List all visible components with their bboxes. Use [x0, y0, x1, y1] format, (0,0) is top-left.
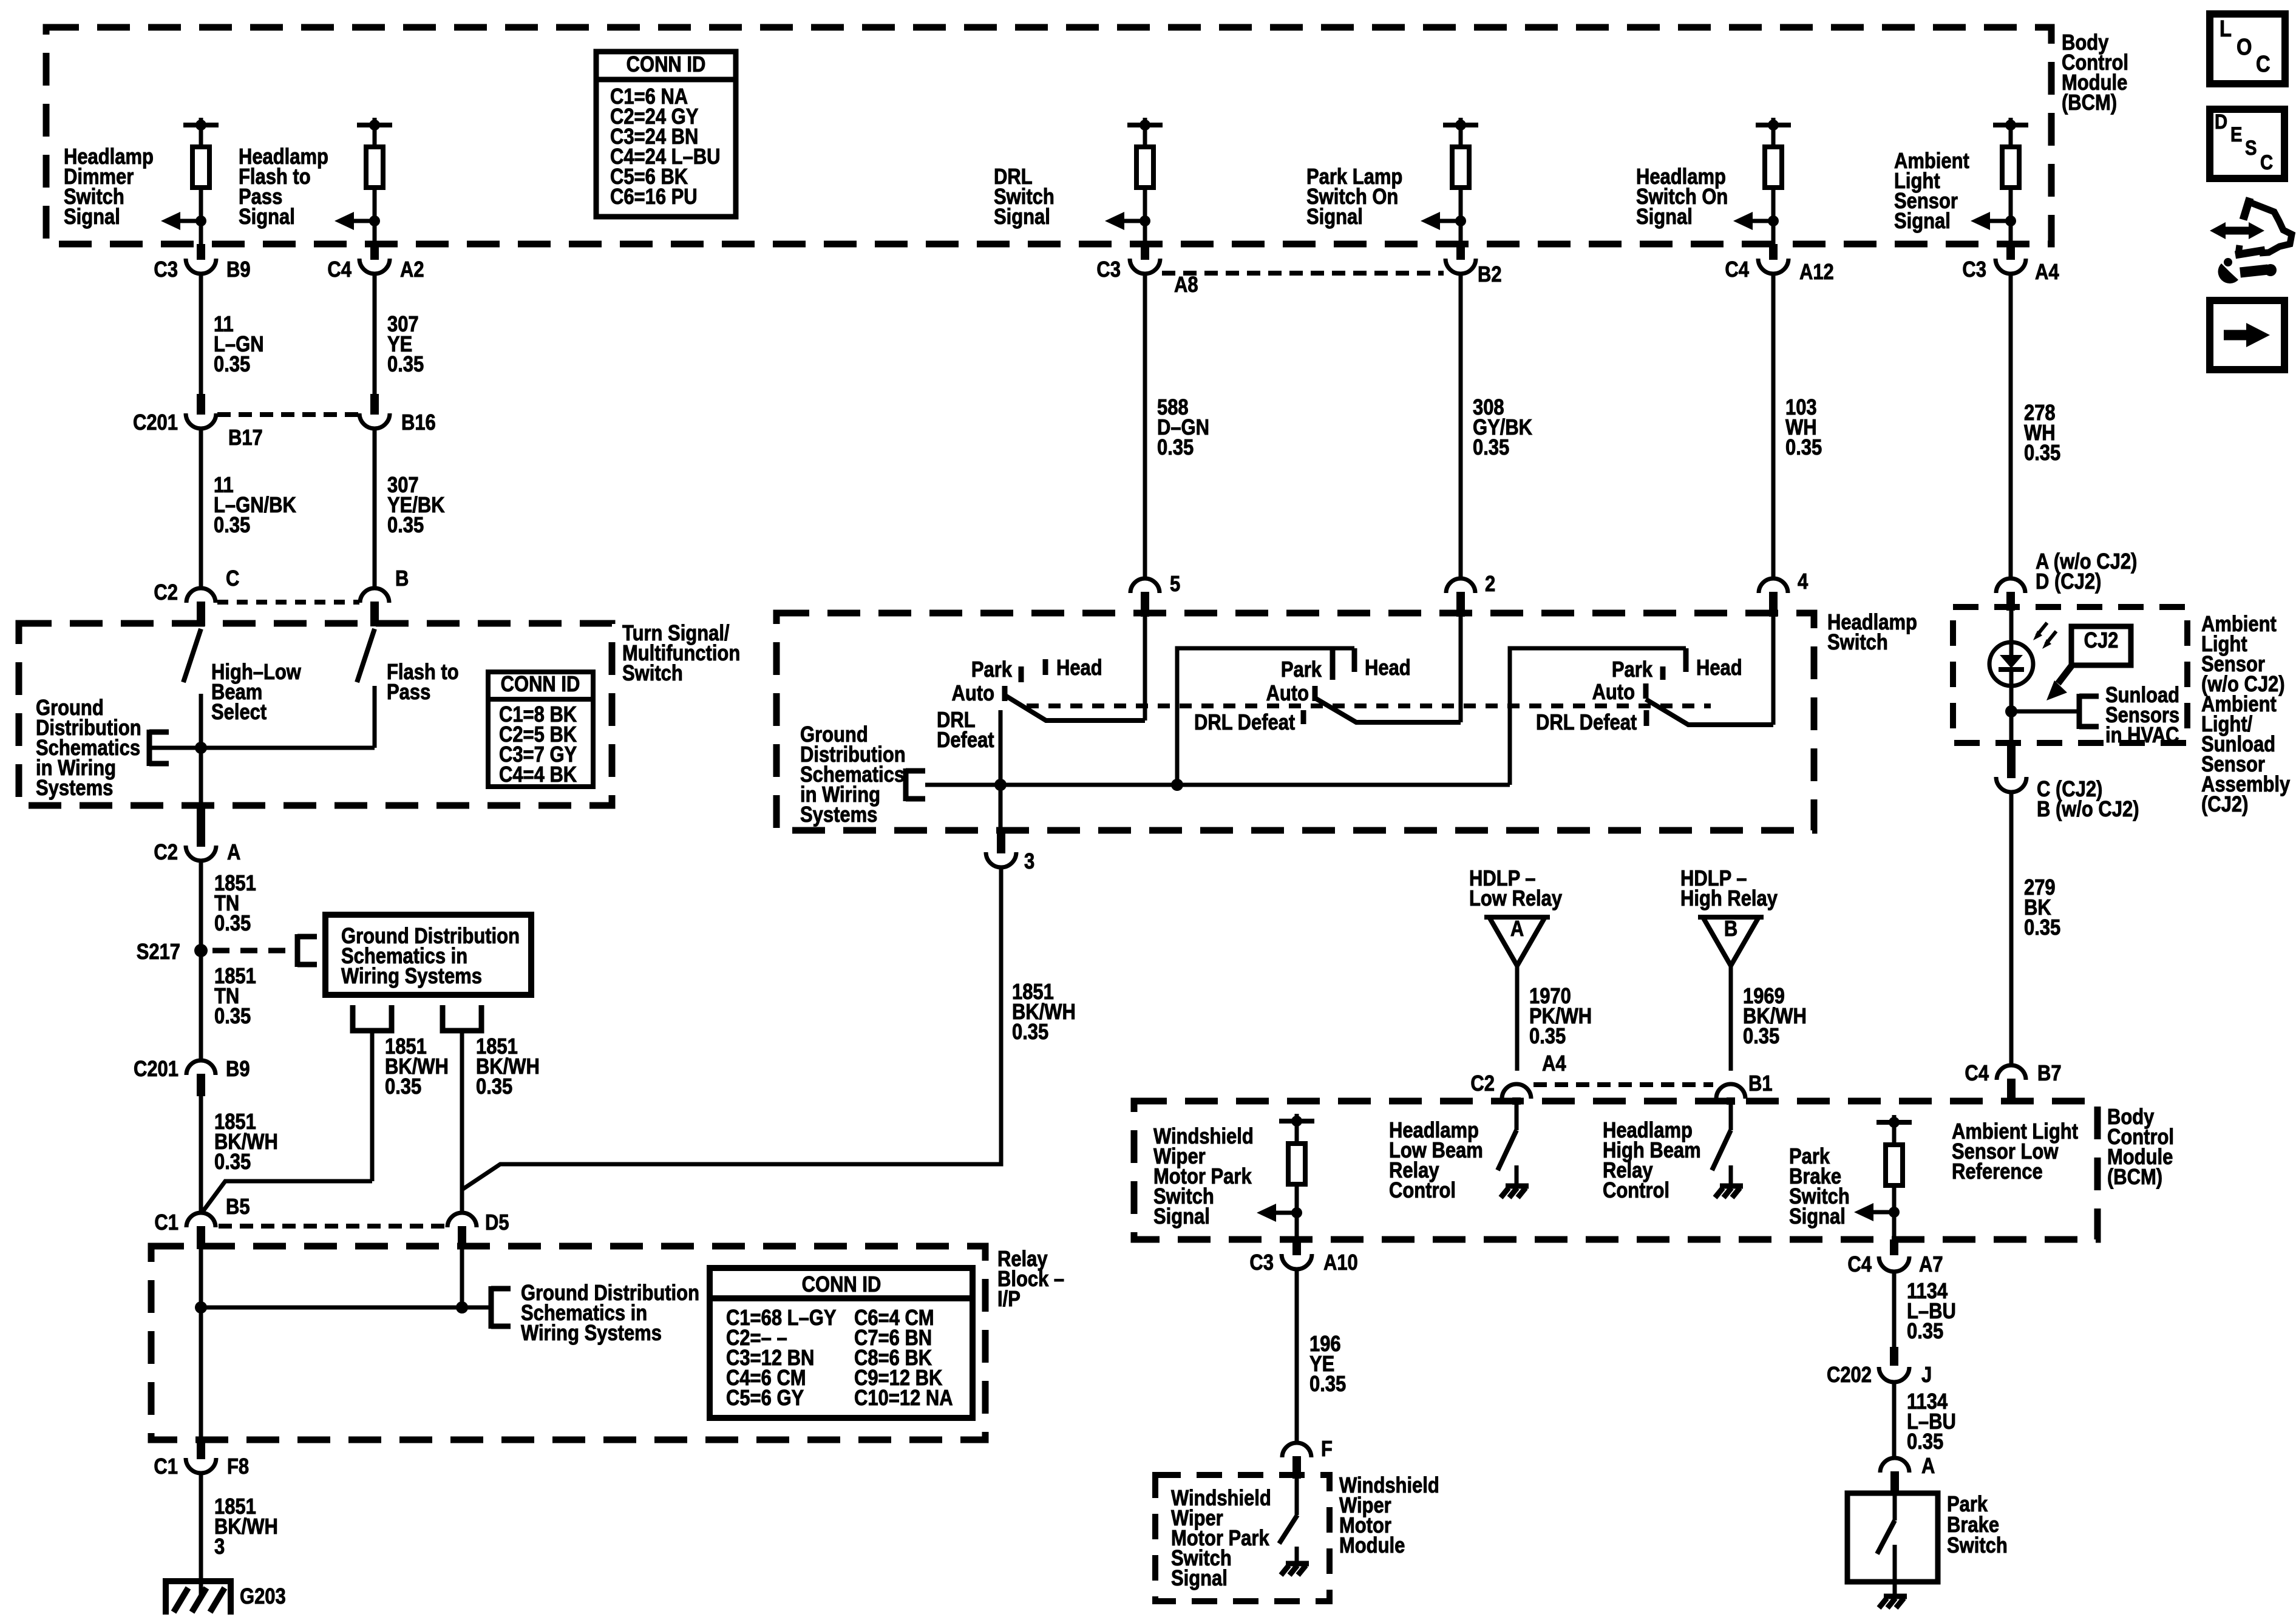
wire ambient light sensor signal B+ stub [2009, 118, 2013, 126]
svg-text:0.35: 0.35 [387, 353, 424, 377]
node headlamp flash to pass signal top bar [357, 123, 392, 127]
svg-text:Signal: Signal [1153, 1205, 1210, 1229]
wire headlamp flash to pass signal B+ stub [373, 118, 377, 126]
svg-text:L: L [2220, 16, 2232, 42]
signal arrow DRL switch signal [1113, 219, 1145, 223]
wire headlamp-on inside switch [1771, 617, 1776, 725]
svg-text:0.35: 0.35 [1907, 1430, 1943, 1454]
svg-text:Switch: Switch [1827, 631, 1888, 655]
svg-text:C: C [2256, 51, 2271, 77]
svg-text:C: C [226, 567, 239, 591]
node headlamp switch on signal top bar [1756, 123, 1791, 127]
svg-text:C4: C4 [1965, 1062, 1989, 1086]
signal arrow headlamp flash to pass signal [343, 219, 375, 223]
connector D5 [447, 1213, 477, 1227]
svg-text:B16: B16 [401, 411, 436, 435]
wire DRL defeat output [999, 710, 1003, 830]
switch C head contact [1683, 648, 1689, 672]
wire park lamp switch on signal [1459, 125, 1463, 149]
bracket sunload sensors [2077, 694, 2082, 729]
svg-text:D (CJ2): D (CJ2) [2036, 570, 2101, 594]
connector C1/F8 [197, 1438, 205, 1459]
svg-text:Signal: Signal [1789, 1205, 1846, 1229]
wire 588 D-GN [1143, 274, 1147, 579]
park brake switch box [1847, 1493, 1938, 1582]
switch B head contact [1352, 648, 1357, 672]
wire park lamp switch on signal B+ stub [1459, 118, 1463, 126]
svg-text:B (w/o CJ2): B (w/o CJ2) [2037, 798, 2139, 822]
wire 1851 BK/WH defeat [462, 867, 1001, 1190]
park brake switch blade [1893, 1493, 1897, 1520]
wire to G203 [199, 1473, 203, 1596]
svg-text:(CJ2): (CJ2) [2201, 793, 2248, 817]
switch C contact feed [1510, 648, 1686, 785]
svg-text:A10: A10 [1323, 1251, 1358, 1275]
connector A/D into sensor [1996, 578, 2025, 593]
CONN ID table (BCM) [596, 52, 736, 217]
svg-text:B9: B9 [226, 1057, 250, 1082]
svg-text:C201: C201 [133, 411, 178, 435]
svg-text:0.35: 0.35 [2024, 441, 2060, 466]
wire headlamp switch on signal [1771, 188, 1776, 244]
svg-text:0.35: 0.35 [214, 1005, 251, 1029]
svg-text:0.35: 0.35 [1012, 1020, 1048, 1045]
node headlamp switch on signal arrow junction [1768, 215, 1779, 226]
svg-text:Module: Module [1339, 1534, 1405, 1558]
switch C blade [1646, 699, 1773, 725]
svg-text:Signal: Signal [1894, 209, 1951, 234]
svg-text:B17: B17 [228, 426, 263, 450]
svg-text:Head: Head [1365, 656, 1411, 680]
switch C park contact [1660, 666, 1666, 680]
svg-text:Wiring Systems: Wiring Systems [341, 964, 482, 989]
ground (park brake) [1884, 1594, 1907, 1599]
svg-text:Signal: Signal [239, 205, 295, 229]
CJ2 arrow [2058, 663, 2074, 683]
node ambient light sensor signal top bar [1993, 123, 2028, 127]
svg-text:Defeat: Defeat [937, 728, 994, 753]
LOC icon box [2210, 14, 2285, 84]
connector C2/A [197, 807, 205, 847]
svg-text:Switch: Switch [622, 662, 683, 686]
connector C201 B16 [370, 394, 379, 415]
svg-text:C3: C3 [154, 258, 178, 282]
svg-text:0.35: 0.35 [1743, 1025, 1779, 1049]
svg-text:0.35: 0.35 [1309, 1372, 1346, 1397]
svg-text:C1: C1 [154, 1211, 178, 1235]
svg-text:Pass: Pass [387, 680, 430, 705]
wire 1969 BK/WH [1729, 966, 1733, 1071]
relay triangle B [1703, 917, 1759, 966]
switch A head contact [1043, 659, 1048, 675]
svg-text:Switch: Switch [1947, 1534, 2008, 1558]
ground G203 [163, 1578, 233, 1584]
ambient light sensor dashed box [1953, 607, 2187, 743]
switch A blade [1005, 696, 1145, 720]
goes-to cup left [353, 1005, 392, 1031]
signal arrow headlamp switch on signal [1742, 219, 1773, 223]
node defeat bus junction [994, 779, 1007, 791]
svg-text:C3: C3 [1096, 258, 1121, 282]
wire 279 BK [2009, 792, 2014, 1066]
svg-text:C2: C2 [154, 841, 178, 865]
connector C201 B17 [197, 394, 205, 415]
windshield wiper motor module dashed box [1155, 1475, 1330, 1601]
svg-text:F: F [1321, 1437, 1333, 1462]
wire DRL switch signal B+ stub [1143, 118, 1147, 126]
svg-text:A7: A7 [1919, 1253, 1943, 1277]
svg-text:B: B [395, 567, 409, 591]
svg-text:B7: B7 [2037, 1062, 2062, 1086]
svg-text:(BCM): (BCM) [2062, 91, 2117, 115]
svg-text:J: J [1921, 1363, 1932, 1388]
arrow icon box [2210, 300, 2284, 370]
node bus right [456, 1301, 468, 1314]
wire DRL switch signal [1143, 125, 1147, 149]
svg-text:B1: B1 [1748, 1072, 1773, 1096]
connector C3/A4 [2006, 244, 2015, 260]
svg-text:0.35: 0.35 [1785, 436, 1822, 460]
svg-text:C5=6 GY: C5=6 GY [726, 1386, 804, 1411]
wire headlamp flash to pass signal [373, 188, 377, 244]
wire photodiode low side [2009, 686, 2014, 743]
svg-text:Head: Head [1696, 656, 1742, 680]
connector C1/B5 [186, 1213, 216, 1227]
wire 103 WH [1771, 274, 1776, 579]
connector pin line C201 [217, 412, 359, 417]
wire 308 GY/BK [1459, 274, 1463, 579]
switch B blade [1315, 698, 1461, 722]
svg-text:Park: Park [1281, 658, 1322, 682]
wire ambient light sensor signal [2009, 125, 2013, 149]
svg-text:CONN ID: CONN ID [802, 1273, 881, 1297]
svg-text:S: S [2245, 136, 2257, 160]
switch B contact feed [1177, 648, 1354, 783]
svg-text:A8: A8 [1174, 273, 1198, 297]
connector C4/B7 [1997, 1065, 2026, 1080]
signal arrow ambient light sensor signal [1979, 219, 2011, 223]
svg-text:DRL Defeat: DRL Defeat [1536, 711, 1637, 735]
wire 1851 BK/WH left [370, 1031, 375, 1181]
svg-text:0.35: 0.35 [1529, 1025, 1566, 1049]
node ambient light sensor signal arrow junction [2005, 215, 2016, 226]
resistor DRL switch signal [1136, 147, 1153, 188]
svg-text:C4=4 BK: C4=4 BK [499, 763, 577, 787]
svg-text:C4: C4 [1847, 1253, 1872, 1277]
light arrows [2037, 623, 2047, 636]
svg-text:Auto: Auto [1266, 682, 1309, 706]
node headlamp dimmer switch signal arrow junction [195, 215, 206, 226]
connector C2/C [186, 588, 216, 603]
ground (wiper module) [1286, 1561, 1309, 1567]
wire flash-pass lower [373, 686, 377, 748]
svg-text:Signal: Signal [1636, 205, 1693, 229]
connector C4/A7 [1890, 1239, 1898, 1255]
switch high-low beam select [183, 629, 201, 682]
connector pin line C2 [217, 600, 359, 605]
svg-text:Systems: Systems [36, 776, 113, 801]
ground (high beam relay) [1720, 1184, 1743, 1189]
svg-text:Control: Control [1389, 1179, 1456, 1203]
svg-text:CJ2: CJ2 [2084, 629, 2119, 653]
svg-text:Control: Control [1603, 1179, 1669, 1203]
wire park lamp switch on signal [1459, 188, 1463, 244]
switch B auto contact [1313, 686, 1318, 701]
svg-text:C4: C4 [1725, 258, 1749, 282]
wire high-low lower [199, 694, 203, 808]
wire 1851 BK/WH main [199, 1096, 203, 1213]
wire headlamp switch on signal [1771, 125, 1776, 149]
CONN ID table (relay block) [710, 1268, 973, 1418]
connector B2 [1456, 244, 1465, 260]
wrench icon [2240, 269, 2268, 273]
wire headlamp dimmer switch signal B+ stub [199, 118, 203, 126]
svg-text:0.35: 0.35 [214, 514, 250, 538]
svg-text:B: B [1724, 917, 1737, 941]
wire 1851 TN [199, 861, 203, 1061]
svg-text:B9: B9 [226, 258, 251, 282]
svg-text:E: E [2230, 123, 2242, 146]
connector 3 [997, 830, 1005, 853]
bracket ground distribution (relay block) [489, 1286, 494, 1329]
svg-text:3: 3 [214, 1535, 225, 1559]
wiper park switch [1295, 1479, 1299, 1515]
signal arrow park brake [1863, 1210, 1894, 1215]
svg-text:0.35: 0.35 [1157, 436, 1194, 460]
svg-text:D: D [2215, 110, 2227, 134]
resistor headlamp flash to pass signal [366, 147, 383, 188]
wire 278 WH [2009, 274, 2013, 579]
connector pin line C1 [219, 1224, 446, 1229]
svg-text:High Relay: High Relay [1680, 887, 1778, 911]
svg-text:S217: S217 [137, 940, 180, 964]
svg-text:A4: A4 [2035, 260, 2059, 285]
svg-text:Signal: Signal [1171, 1567, 1228, 1591]
connector B [360, 588, 389, 603]
svg-text:Systems: Systems [800, 803, 877, 827]
goes-to cup right [443, 1005, 481, 1031]
svg-text:0.35: 0.35 [214, 912, 251, 936]
wiper park switch signal resistor wire [1295, 1114, 1299, 1122]
DRL defeat contact (C) [1644, 710, 1649, 726]
connector 2 [1446, 578, 1475, 593]
DRL defeat contact (B) [1301, 710, 1306, 724]
wire into relay block right [460, 1248, 464, 1307]
Turn Signal/Multifunction Switch dashed box [19, 623, 612, 805]
svg-text:DRL Defeat: DRL Defeat [1194, 711, 1295, 735]
svg-text:Park: Park [971, 658, 1012, 682]
Headlamp Switch dashed box [776, 613, 1814, 830]
svg-text:D5: D5 [485, 1211, 509, 1235]
switch A park contact [1019, 666, 1024, 682]
node sunload junction [2005, 705, 2017, 717]
connector C2/A4 [1502, 1084, 1531, 1099]
node park lamp switch on signal arrow junction [1455, 215, 1466, 226]
svg-text:Signal: Signal [994, 205, 1050, 229]
svg-text:Select: Select [211, 700, 267, 725]
wire 1851 BK/WH left bend [203, 1181, 372, 1212]
wire headlamp dimmer switch signal [199, 188, 203, 244]
svg-text:CONN ID: CONN ID [501, 673, 580, 697]
resistor headlamp dimmer switch signal [192, 147, 209, 188]
svg-text:C201: C201 [134, 1057, 178, 1082]
switch A auto contact [1002, 686, 1008, 701]
bracket ground distribution (turn signal) [147, 730, 152, 766]
ground bus in relay block [201, 1306, 491, 1310]
connector F [1282, 1443, 1311, 1457]
connector C4/A2 [370, 244, 379, 260]
switch C auto contact [1643, 683, 1649, 699]
svg-text:0.35: 0.35 [1907, 1320, 1943, 1344]
svg-text:I/P: I/P [997, 1287, 1021, 1312]
node DRL switch signal top bar [1127, 123, 1163, 127]
svg-text:0.35: 0.35 [214, 353, 250, 377]
resistor ambient light sensor signal [2002, 147, 2019, 188]
connector C3/A8 [1141, 244, 1149, 260]
wire ambient light sensor signal [2009, 188, 2013, 244]
DESC icon box [2210, 109, 2284, 178]
connector C3/B9 [197, 244, 205, 260]
svg-text:C10=12 NA: C10=12 NA [854, 1386, 953, 1411]
svg-text:Park: Park [1612, 658, 1652, 682]
svg-text:Head: Head [1056, 656, 1102, 680]
switch B park contact [1330, 648, 1336, 680]
svg-text:C3: C3 [1249, 1251, 1274, 1275]
svg-text:O: O [2237, 34, 2252, 60]
DRL defeat mechanical link [1027, 703, 1711, 708]
wire to sunload bracket [2011, 710, 2079, 714]
relay triangle A [1489, 917, 1545, 966]
svg-text:A12: A12 [1799, 260, 1834, 285]
CONN ID table (turn signal) [488, 672, 593, 787]
Body Control Module (BCM) top dashed box [46, 27, 2051, 244]
svg-text:B2: B2 [1478, 263, 1502, 287]
connector C201/B9 [186, 1060, 216, 1075]
park brake switch signal resistor wire [1892, 1115, 1897, 1124]
svg-text:2: 2 [1485, 572, 1495, 597]
node bus junction [195, 742, 207, 754]
wire to photodiode [2009, 611, 2014, 643]
wire 307 YE/BK [373, 428, 377, 589]
svg-text:3: 3 [1024, 850, 1034, 874]
wire 307 YE [373, 274, 377, 395]
ground bus in headlamp switch [925, 783, 1510, 787]
svg-text:G203: G203 [240, 1585, 286, 1609]
signal arrow park lamp switch on signal [1429, 219, 1461, 223]
connector C4/A12 [1769, 244, 1778, 260]
resistor park lamp switch on signal [1452, 147, 1469, 188]
svg-text:C3: C3 [1962, 258, 1986, 282]
connector 4 [1759, 578, 1788, 593]
svg-text:Signal: Signal [64, 205, 120, 229]
wire 1134 L-BU lower [1892, 1382, 1897, 1458]
splice S217 [194, 944, 208, 957]
svg-text:Auto: Auto [1592, 680, 1635, 705]
svg-text:4: 4 [1798, 570, 1809, 594]
ground distribution schematics box [325, 915, 531, 995]
node DRL switch signal arrow junction [1140, 215, 1150, 226]
svg-text:0.35: 0.35 [387, 514, 424, 538]
svg-text:A: A [1510, 917, 1524, 941]
svg-text:C2: C2 [154, 581, 178, 605]
svg-text:A: A [227, 841, 240, 865]
hand/double-arrow icon [2220, 227, 2256, 235]
Body Control Module (BCM) bottom dashed box [1134, 1101, 2097, 1239]
wire headlamp switch on signal B+ stub [1771, 118, 1776, 126]
node headlamp dimmer switch signal top bar [183, 123, 219, 127]
wire 1851 BK/WH right [460, 1031, 464, 1213]
low beam relay control switch [1515, 1105, 1519, 1130]
connector C202/J [1890, 1347, 1898, 1366]
svg-text:C1: C1 [154, 1455, 178, 1479]
svg-text:0.35: 0.35 [214, 1150, 251, 1175]
svg-text:0.35: 0.35 [1473, 436, 1509, 460]
svg-text:B5: B5 [226, 1195, 250, 1219]
wire headlamp dimmer switch signal [199, 125, 203, 149]
svg-text:C6=16 PU: C6=16 PU [610, 185, 698, 209]
connector pin line A8-B2 [1162, 271, 1444, 276]
connector 5 [1130, 578, 1160, 593]
svg-text:0.35: 0.35 [476, 1075, 512, 1099]
wire 11 L-GN/BK [199, 428, 203, 589]
switch flash to pass [357, 629, 375, 682]
svg-text:C2: C2 [1470, 1072, 1495, 1096]
node park lamp switch on signal top bar [1443, 123, 1478, 127]
svg-text:(BCM): (BCM) [2107, 1165, 2162, 1190]
svg-text:Auto: Auto [952, 682, 994, 706]
wire 11 L-GN [199, 274, 203, 395]
connector C3/A10 [1292, 1239, 1301, 1255]
svg-text:A: A [1921, 1454, 1935, 1479]
node headlamp flash to pass signal arrow junction [369, 215, 380, 226]
svg-text:0.35: 0.35 [2024, 916, 2060, 940]
svg-text:5: 5 [1170, 572, 1180, 597]
bracket S217 ground distribution [295, 934, 301, 967]
node switch B feed junction [1171, 779, 1183, 791]
photodiode ambient sensor [1989, 642, 2033, 686]
resistor headlamp switch on signal [1765, 147, 1782, 188]
wire 1970 PK/WH [1515, 966, 1520, 1071]
wire DRL switch signal [1143, 188, 1147, 244]
svg-text:A2: A2 [400, 258, 424, 282]
svg-text:0.35: 0.35 [385, 1075, 421, 1099]
wire park lamp inside switch [1459, 617, 1463, 722]
CJ2 callout box [2071, 626, 2131, 665]
svg-text:C4: C4 [327, 258, 352, 282]
Relay Block - I/P dashed box [151, 1246, 985, 1440]
ground bus in turn signal switch [149, 746, 375, 750]
bracket ground distribution (headlamp switch) [903, 768, 909, 801]
svg-text:CONN ID: CONN ID [627, 53, 706, 77]
connector B1 [1716, 1084, 1745, 1099]
signal arrow wiper park [1265, 1211, 1297, 1215]
wire into relay block left [199, 1248, 203, 1438]
svg-text:Wiring Systems: Wiring Systems [521, 1321, 662, 1346]
svg-text:A4: A4 [1542, 1052, 1566, 1076]
wire 1134 L-BU upper [1892, 1272, 1897, 1347]
signal arrow headlamp dimmer switch signal [169, 219, 201, 223]
connector pin line A4-B1 [1533, 1082, 1713, 1087]
svg-text:Low Relay: Low Relay [1469, 887, 1562, 911]
wire headlamp flash to pass signal [373, 125, 377, 149]
svg-text:Signal: Signal [1306, 205, 1363, 229]
ground (low beam relay) [1506, 1184, 1529, 1189]
dashed leader S217 [212, 948, 290, 954]
svg-text:in HVAC: in HVAC [2105, 724, 2179, 748]
wire 196 YE [1295, 1269, 1299, 1443]
svg-text:C202: C202 [1827, 1363, 1872, 1388]
wire DRL inside switch [1143, 617, 1147, 720]
